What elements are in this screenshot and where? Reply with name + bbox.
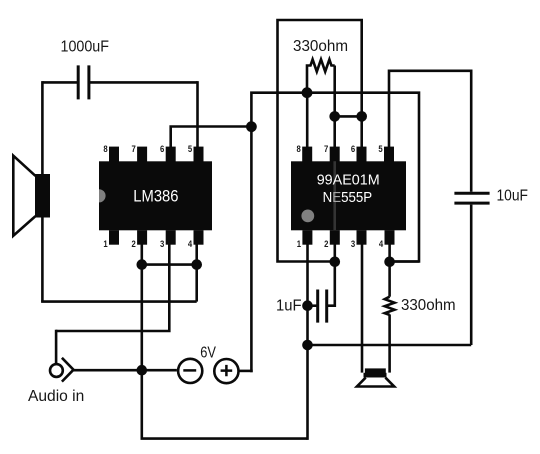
wire: [73, 369, 177, 372]
wire: [306, 93, 309, 149]
speaker SPK1 (left): [13, 156, 50, 236]
svg-text:330ohm: 330ohm: [401, 297, 456, 314]
wire VCC net: [251, 93, 419, 262]
svg-text:5: 5: [188, 144, 193, 155]
svg-text:2: 2: [131, 239, 135, 250]
svg-text:6: 6: [160, 144, 164, 155]
timer IC NE555P U2: [291, 144, 406, 250]
wire (seen through IC body): [333, 161, 336, 230]
wire: [388, 314, 391, 372]
wire: [361, 244, 364, 373]
wire: [388, 244, 391, 297]
svg-text:2: 2: [324, 239, 328, 250]
junction: [356, 111, 367, 122]
capacitor 1uF: [276, 290, 327, 323]
svg-text:99AE01M: 99AE01M: [317, 171, 380, 188]
resistor 330ohm (top): [293, 38, 348, 93]
wire: [196, 81, 199, 148]
svg-text:4: 4: [379, 239, 384, 250]
pin1 dot marker: [301, 210, 314, 223]
svg-text:6: 6: [351, 144, 355, 155]
svg-text:8: 8: [297, 144, 301, 155]
svg-text:10uF: 10uF: [497, 188, 529, 205]
wire: [390, 260, 419, 263]
wire: [306, 244, 309, 440]
wire: [141, 437, 308, 440]
wire: [171, 127, 252, 149]
capacitor 10uF: [454, 188, 528, 205]
wire: [89, 81, 198, 84]
junction: [302, 340, 313, 351]
junction: [137, 365, 148, 376]
wire: [389, 71, 471, 192]
junction: [137, 259, 148, 270]
svg-text:4: 4: [188, 239, 193, 250]
svg-text:5: 5: [378, 144, 383, 155]
junction: [302, 300, 313, 311]
junction: [191, 259, 202, 270]
wire: [141, 244, 144, 439]
junction: [330, 257, 341, 268]
wire: [239, 370, 253, 373]
svg-text:1uF: 1uF: [276, 298, 302, 315]
wire: [195, 244, 198, 302]
wire: [55, 330, 58, 364]
battery BT1 6V: [178, 344, 238, 383]
svg-text:7: 7: [131, 144, 135, 155]
wire: [327, 244, 335, 306]
svg-text:3: 3: [351, 239, 355, 250]
svg-text:1: 1: [297, 239, 302, 250]
wire: [41, 81, 44, 302]
svg-text:330ohm: 330ohm: [293, 38, 348, 55]
wire: [250, 127, 253, 373]
svg-text:NE555P: NE555P: [323, 189, 373, 206]
svg-text:Audio in: Audio in: [28, 388, 84, 405]
junction: [384, 257, 395, 268]
op-amp IC LM386 U1: [99, 144, 212, 250]
junction: [246, 121, 257, 132]
pin1 notch marker: [99, 189, 106, 202]
junction: [329, 111, 340, 122]
capacitor 1000uF: [61, 39, 110, 100]
wire: [333, 66, 336, 149]
svg-text:6V: 6V: [200, 344, 216, 361]
wire: [470, 205, 473, 345]
svg-text:1000uF: 1000uF: [61, 39, 110, 56]
speaker SPK2 (bottom): [357, 368, 394, 386]
wire: [308, 344, 472, 347]
wire: [41, 300, 197, 303]
svg-text:3: 3: [160, 239, 164, 250]
wire: [142, 263, 197, 266]
connector J1 Audio in: [28, 358, 84, 405]
svg-text:7: 7: [324, 144, 328, 155]
svg-text:LM386: LM386: [133, 188, 178, 206]
wire: [278, 20, 362, 262]
svg-text:1: 1: [103, 239, 108, 250]
wire: [42, 81, 78, 84]
wire: [56, 244, 169, 331]
resistor 330ohm (bottom): [385, 297, 456, 315]
svg-text:8: 8: [103, 144, 107, 155]
wire: [335, 115, 362, 118]
wire: [308, 304, 318, 307]
junction: [302, 87, 313, 98]
